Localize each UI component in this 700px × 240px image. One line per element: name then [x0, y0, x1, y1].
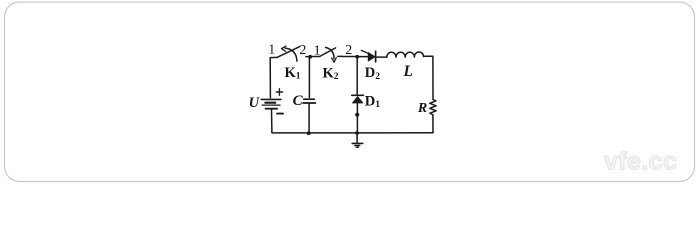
- switch K2 contact 2 stub: [338, 55, 343, 57]
- wire: battery - down to bottom-left corner, bottom wire to right: [272, 109, 434, 133]
- svg-text:C: C: [293, 93, 304, 109]
- switch K2 throw arc with arrow: [326, 47, 334, 58]
- switch K1 contact 2 stub to node A: [306, 56, 310, 58]
- capacitor C: [303, 99, 316, 103]
- wire: capacitor C down to node C on bottom wire: [308, 104, 310, 134]
- battery + sign: [276, 89, 282, 95]
- switch K2 blade: [320, 48, 336, 57]
- stray stroke above D2 anode: [361, 50, 368, 53]
- battery U: [261, 99, 281, 108]
- wire: inductor L to top-right corner and down to resistor R: [424, 56, 433, 99]
- svg-text:2: 2: [299, 43, 306, 58]
- wire: D2 cathode to inductor L: [376, 56, 386, 58]
- ground: [352, 133, 363, 147]
- wire: node A down to capacitor C: [308, 57, 310, 97]
- wire: resistor R down to bottom-right corner: [432, 115, 434, 133]
- switch K2 contact 1 stub from node A: [310, 56, 320, 58]
- wire: K2 contact 2 to node B: [342, 56, 356, 58]
- svg-text:U: U: [249, 95, 261, 111]
- svg-text:1: 1: [314, 43, 321, 58]
- svg-text:L: L: [403, 63, 413, 80]
- inductor L: [387, 52, 424, 57]
- diode D1: [352, 95, 364, 103]
- svg-text:2: 2: [345, 43, 352, 58]
- svg-text:1: 1: [268, 42, 275, 57]
- switch K1 blade: [277, 47, 300, 58]
- node on D1 branch: [355, 113, 359, 117]
- diode D2: [368, 51, 375, 62]
- wire: diode D1 anode down to node D: [356, 103, 358, 133]
- node D (bottom, ground junction): [355, 131, 359, 135]
- svg-text:R: R: [417, 101, 427, 116]
- wire: node B to diode D2 anode: [357, 56, 368, 58]
- svg-text:vfe.cc: vfe.cc: [604, 148, 677, 176]
- resistor R: [430, 100, 436, 115]
- node B (junction K2/D1/D2): [355, 55, 359, 59]
- wire: node B down to diode D1 cathode: [356, 57, 358, 95]
- wire: left vertical from K1 contact 1 down to battery +: [270, 57, 277, 97]
- switch K1 throw arc with arrow: [285, 48, 297, 61]
- node A (junction K1/K2/C): [308, 55, 312, 59]
- battery - sign: [277, 113, 283, 115]
- node C (bottom, capacitor branch): [307, 131, 311, 135]
